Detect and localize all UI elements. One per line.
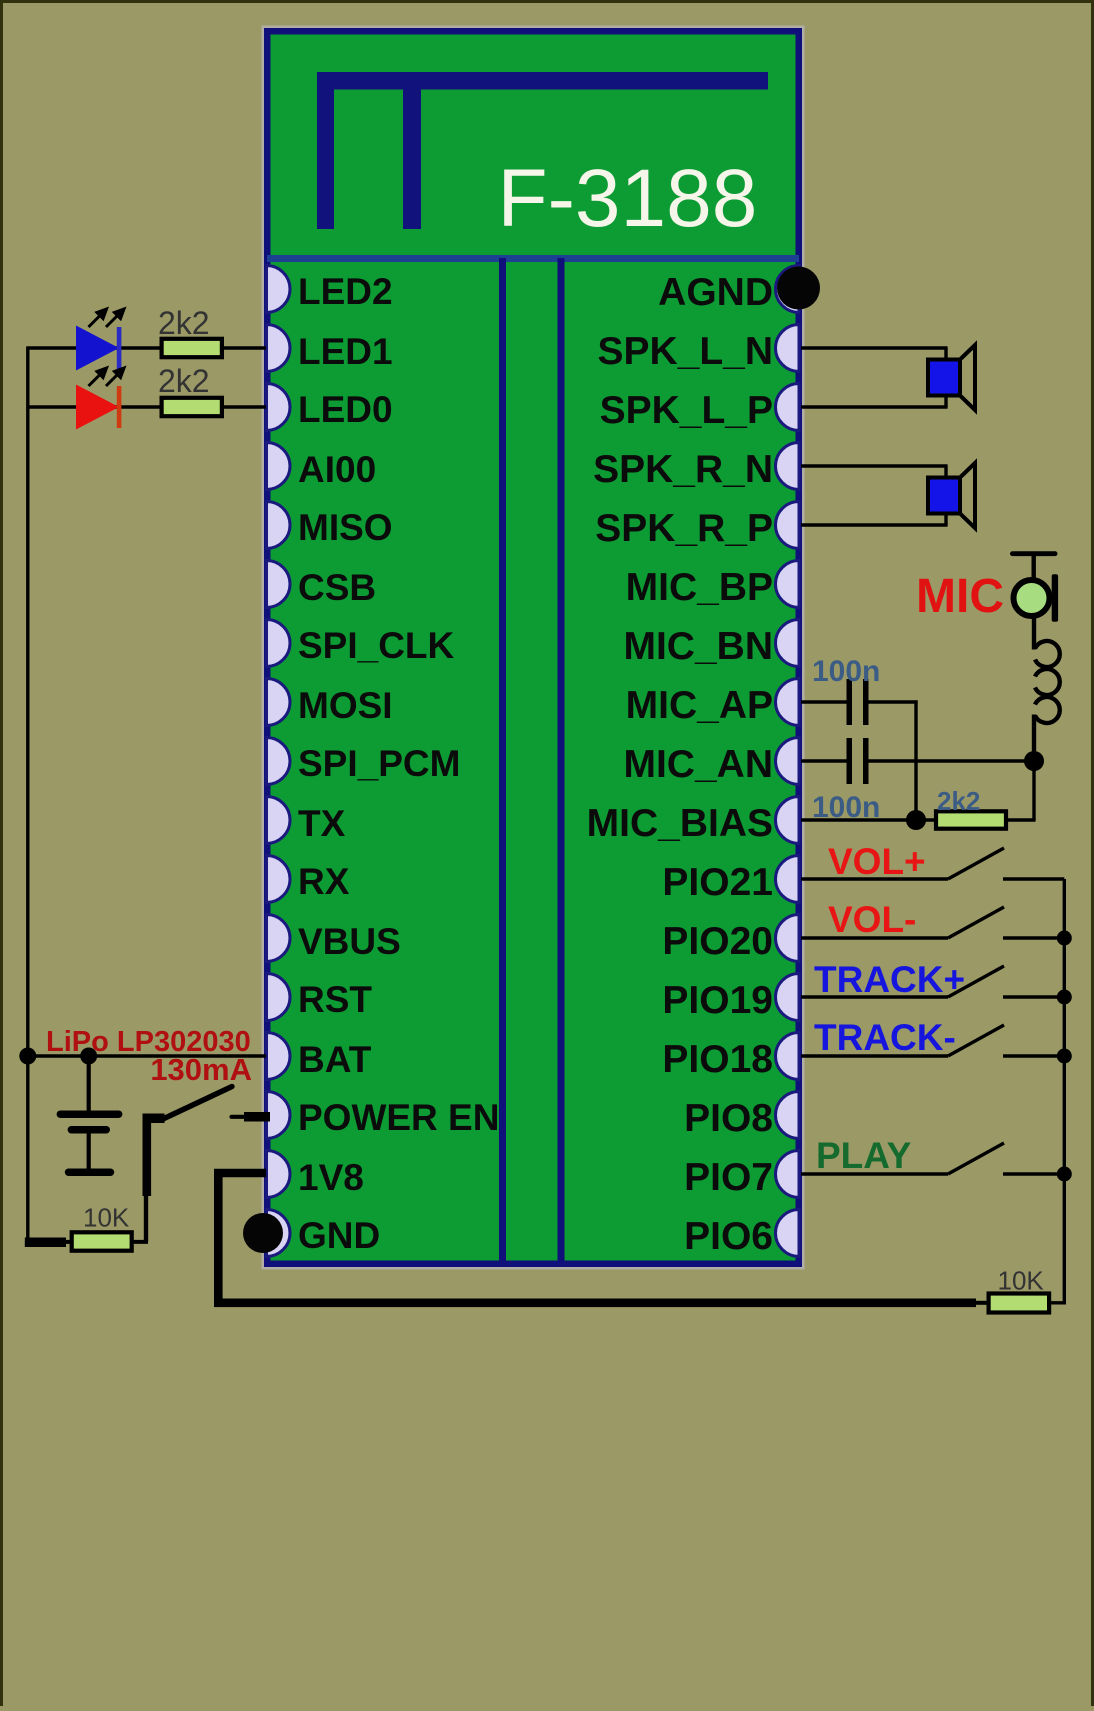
pin VBUS <box>267 915 401 963</box>
wire node vertical <box>914 700 917 820</box>
svg-text:VBUS: VBUS <box>298 921 401 962</box>
svg-text:MIC_AP: MIC_AP <box>626 684 773 727</box>
column divider right <box>558 258 565 1261</box>
svg-text:RST: RST <box>298 979 372 1020</box>
svg-text:1V8: 1V8 <box>298 1157 364 1198</box>
pin MIC_BP <box>626 561 799 610</box>
pin PIO21 <box>662 856 799 905</box>
resistor R2 2k2 <box>158 363 222 416</box>
wire R4 to switch <box>132 1240 148 1244</box>
switch TRACK+ <box>801 959 1064 1000</box>
node bus junction PIO19 <box>1057 990 1072 1005</box>
antenna mark <box>317 72 768 229</box>
svg-text:SPK_R_P: SPK_R_P <box>595 507 773 550</box>
pin CSB <box>267 561 377 609</box>
pin PIO7 <box>684 1151 799 1200</box>
node bus junction PIO20 <box>1057 931 1072 946</box>
pin RST <box>267 974 373 1021</box>
pin BAT <box>267 1033 372 1081</box>
svg-text:PIO6: PIO6 <box>684 1215 773 1258</box>
svg-text:MIC_BN: MIC_BN <box>623 625 773 668</box>
svg-text:PIO19: PIO19 <box>662 979 773 1022</box>
pin MIC_AP <box>626 679 799 728</box>
pin PIO19 <box>662 974 799 1023</box>
wire bottom rail thick stub <box>25 1238 66 1248</box>
node battery rail junction <box>19 1048 36 1065</box>
svg-text:LED1: LED1 <box>298 331 393 372</box>
pin PIO20 <box>662 915 799 964</box>
pin MOSI <box>267 679 393 727</box>
GND ground node dot <box>243 1213 283 1253</box>
svg-text:POWER EN: POWER EN <box>298 1097 499 1138</box>
svg-text:PIO8: PIO8 <box>684 1097 773 1140</box>
resistor R1 2k2 <box>158 305 222 357</box>
wire SPK lower 1 <box>801 523 948 526</box>
svg-text:LED2: LED2 <box>298 271 393 312</box>
switch VOL+ <box>801 841 1064 882</box>
wire MIC_BIAS row <box>801 818 936 821</box>
svg-text:MOSI: MOSI <box>298 685 393 726</box>
wire C1 to node <box>869 700 918 703</box>
switch power SW1 <box>143 1087 271 1197</box>
svg-text:100n: 100n <box>812 655 880 688</box>
svg-text:PIO18: PIO18 <box>662 1038 773 1081</box>
frame right edge <box>1091 0 1094 1706</box>
module U1 F-3188 body <box>262 26 805 1270</box>
pin SPI_CLK <box>267 620 455 667</box>
svg-text:VOL-: VOL- <box>828 899 916 940</box>
wire SPK upper 1 <box>801 464 948 467</box>
pin PIO18 <box>662 1033 799 1082</box>
pin PIO6 <box>684 1210 799 1259</box>
pin RX <box>267 856 350 903</box>
svg-text:PIO21: PIO21 <box>662 861 773 904</box>
svg-text:RX: RX <box>298 861 350 902</box>
svg-text:2k2: 2k2 <box>937 786 980 816</box>
header divider <box>267 255 799 262</box>
wire blue LED row <box>28 346 266 349</box>
pin LED2 <box>267 266 393 313</box>
pin SPI_PCM <box>267 738 461 785</box>
svg-text:SPK_L_N: SPK_L_N <box>597 330 773 373</box>
svg-text:2k2: 2k2 <box>158 305 210 341</box>
svg-text:SPI_CLK: SPI_CLK <box>298 625 455 666</box>
pin PIO8 <box>684 1092 799 1141</box>
wire SPK lower 0 <box>801 405 948 408</box>
svg-text:TX: TX <box>298 803 346 844</box>
node bus junction PIO7 <box>1057 1167 1072 1182</box>
pin MIC_BN <box>623 620 799 669</box>
pin SPK_L_P <box>600 384 799 433</box>
svg-text:MIC_BIAS: MIC_BIAS <box>587 802 773 845</box>
switch TRACK- <box>801 1017 1064 1058</box>
wire BAT row <box>28 1054 266 1057</box>
svg-text:CSB: CSB <box>298 567 376 608</box>
svg-text:MIC_AN: MIC_AN <box>623 743 773 786</box>
column divider left <box>499 258 506 1261</box>
LED D1 blue <box>76 309 124 371</box>
speaker LS1 <box>928 345 975 410</box>
svg-text:MIC_BP: MIC_BP <box>626 566 773 609</box>
switch VOL- <box>801 899 1064 940</box>
pin 1V8 <box>267 1151 364 1199</box>
svg-text:AI00: AI00 <box>298 449 376 490</box>
svg-text:VOL+: VOL+ <box>828 841 926 882</box>
pin LED1 <box>267 325 393 373</box>
svg-text:130mA: 130mA <box>150 1052 252 1087</box>
pin MIC_AN <box>623 738 799 787</box>
svg-text:MISO: MISO <box>298 507 393 548</box>
svg-text:F-3188: F-3188 <box>498 153 758 244</box>
resistor R5 10K <box>974 1266 1049 1313</box>
svg-text:2k2: 2k2 <box>158 363 210 399</box>
svg-text:PIO7: PIO7 <box>684 1156 773 1199</box>
svg-text:TRACK+: TRACK+ <box>814 959 965 1000</box>
wire switch bus <box>1050 879 1064 1303</box>
pin SPK_L_N <box>597 325 799 374</box>
capacitor C1 100n <box>812 655 880 725</box>
node MIC_BIAS junction <box>906 810 926 830</box>
AGND ground node dot <box>777 267 820 310</box>
svg-text:SPK_L_P: SPK_L_P <box>600 389 773 432</box>
wire SPK upper 0 <box>801 346 948 349</box>
microphone MIC <box>1010 551 1060 761</box>
pin AI00 <box>267 443 377 491</box>
svg-text:10K: 10K <box>998 1266 1045 1296</box>
wire red LED row <box>28 405 266 408</box>
wire 1V8 thick trace <box>218 1173 976 1303</box>
node mic junction <box>1024 751 1044 771</box>
svg-text:SPK_R_N: SPK_R_N <box>593 448 773 491</box>
svg-text:BAT: BAT <box>298 1039 372 1080</box>
pin SPK_R_P <box>595 502 799 551</box>
capacitor C2 100n <box>812 738 880 824</box>
svg-text:LED0: LED0 <box>298 389 393 430</box>
wire C2 to mic node <box>869 759 1035 762</box>
wire R3 to mic vertical <box>1006 818 1036 821</box>
svg-text:AGND: AGND <box>658 271 773 314</box>
resistor R4 10K <box>72 1203 132 1251</box>
svg-text:TRACK-: TRACK- <box>814 1017 956 1058</box>
svg-text:PLAY: PLAY <box>816 1135 912 1176</box>
pin MISO <box>267 502 393 549</box>
svg-text:MIC: MIC <box>916 570 1004 623</box>
wire left vertical rail <box>26 346 29 1246</box>
wire MIC_AP row <box>801 700 847 703</box>
wire MIC_AN row <box>801 759 847 762</box>
svg-text:10K: 10K <box>83 1203 130 1233</box>
pin SPK_R_N <box>593 443 799 492</box>
node bus junction PIO18 <box>1057 1049 1072 1064</box>
svg-text:SPI_PCM: SPI_PCM <box>298 743 460 784</box>
svg-text:GND: GND <box>298 1215 380 1256</box>
switch PLAY <box>801 1135 1064 1176</box>
resistor R3 2k2 <box>936 786 1006 829</box>
node battery top junction <box>80 1048 97 1065</box>
pin POWER EN <box>267 1092 500 1139</box>
pin GND <box>267 1210 381 1257</box>
pin AGND <box>658 266 799 315</box>
svg-text:PIO20: PIO20 <box>662 920 773 963</box>
speaker LS2 <box>928 463 975 528</box>
pin TX <box>267 797 346 845</box>
pin LED0 <box>267 384 393 431</box>
LED D0 red <box>76 368 124 430</box>
battery BT1 LiPo <box>57 1056 123 1176</box>
pin MIC_BIAS <box>587 797 799 846</box>
frame top edge <box>0 0 1094 3</box>
frame left edge <box>0 0 3 1706</box>
